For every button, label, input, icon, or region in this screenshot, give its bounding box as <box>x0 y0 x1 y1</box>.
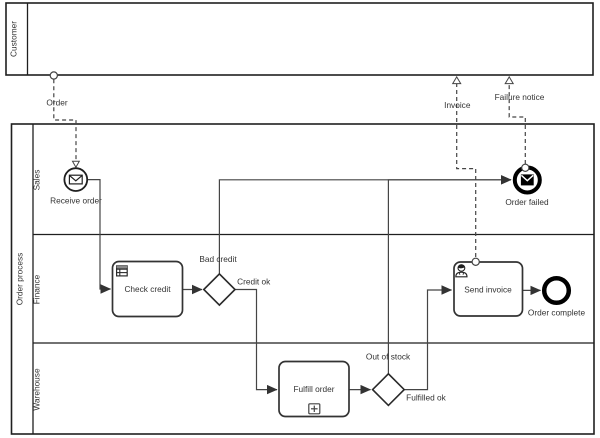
task Fulfill order <box>279 362 349 417</box>
svg-text:Customer: Customer <box>9 21 19 57</box>
wire sequence flow G1 Bad credit to Order failed <box>219 180 511 274</box>
wire message flow Failure notice <box>505 77 525 164</box>
pool Order process <box>12 124 595 434</box>
svg-text:Check credit: Check credit <box>124 284 171 294</box>
svg-text:Fulfilled ok: Fulfilled ok <box>406 393 447 403</box>
svg-text:Order process: Order process <box>15 253 25 306</box>
end event Order failed <box>515 168 540 193</box>
wire message flow Order <box>50 72 79 167</box>
svg-text:Receive order: Receive order <box>50 196 102 206</box>
wire sequence flow G2 Out of stock to Order failed <box>388 180 511 374</box>
svg-text:Bad credit: Bad credit <box>199 254 237 264</box>
svg-text:Order failed: Order failed <box>505 197 549 207</box>
task Check credit <box>113 262 183 317</box>
wire message flow Invoice <box>453 77 476 257</box>
wire sequence flow G2 Fulfilled ok to Send invoice <box>404 290 451 390</box>
svg-text:Invoice: Invoice <box>444 100 471 110</box>
wire sequence flow Send invoice to Order complete <box>523 289 541 291</box>
wire sequence flow Receive order to Check credit <box>88 180 111 289</box>
start event Receive order <box>64 168 87 191</box>
svg-text:Order complete: Order complete <box>528 308 586 318</box>
svg-text:Fulfill order: Fulfill order <box>293 384 334 394</box>
svg-text:Credit ok: Credit ok <box>237 277 271 287</box>
pool Customer <box>6 3 593 75</box>
svg-text:Out of stock: Out of stock <box>366 352 411 362</box>
svg-text:Failure notice: Failure notice <box>495 92 545 102</box>
svg-text:Order: Order <box>46 98 67 108</box>
lane divider Finance/Warehouse <box>33 342 594 344</box>
wire sequence flow Fulfill order to gateway G2 <box>349 389 371 391</box>
task Send invoice <box>454 262 523 316</box>
gateway G1 <box>204 274 235 305</box>
end event Order complete <box>544 278 569 303</box>
svg-text:Send invoice: Send invoice <box>464 285 512 295</box>
wire sequence flow Check credit to gateway G1 <box>183 289 203 291</box>
svg-text:Sales: Sales <box>32 170 42 191</box>
wire sequence flow G1 Credit ok to Fulfill order <box>235 290 277 390</box>
node Invoice message source circle <box>472 258 479 265</box>
lane divider Sales/Finance <box>33 234 594 236</box>
svg-text:Warehouse: Warehouse <box>32 368 42 411</box>
gateway G2 <box>373 374 405 406</box>
svg-text:Finance: Finance <box>32 274 42 304</box>
node Failure notice message source circle <box>522 164 529 171</box>
